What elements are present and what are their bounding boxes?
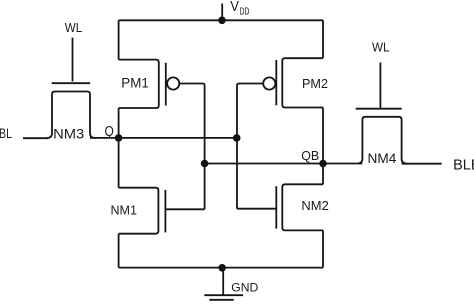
wire PM2 source to VDD rail [322,20,324,58]
wire BL to NM3 [23,137,48,139]
svg-text:PM2: PM2 [302,76,328,91]
node QB junction dot [319,160,327,168]
wire NM4 to BLB [402,163,442,165]
wire NM2 drain to node QB [322,164,324,185]
svg-text:NM3: NM3 [53,126,84,141]
transistor PM1 [119,60,180,108]
svg-text:WL: WL [372,40,390,55]
wire top VDD rail [119,19,323,21]
svg-text:WL: WL [65,20,83,35]
svg-text:V: V [230,0,239,15]
transistor NM1 [119,188,166,234]
node Q junction dot [115,134,123,142]
svg-text:QB: QB [301,149,319,163]
svg-text:PM1: PM1 [121,76,149,91]
svg-text:BLB: BLB [453,157,474,173]
wire bottom ground rail [119,267,323,269]
wire PM1 drain to node Q [118,108,120,138]
wire VDD stub above rail [221,4,223,21]
transistor NM3 (access) [47,83,95,138]
wire PM2 drain to node QB [322,108,324,164]
wire WL to NM4 gate [379,63,381,108]
transistor PM2 [263,58,323,107]
node junction dot gates of PM2/NM2 on Q row [233,134,241,142]
wire NM1 gate to QB vertical [165,208,204,210]
transistor NM4 (access) [356,109,407,164]
wire node QB row [205,163,363,165]
svg-text:NM4: NM4 [368,151,397,166]
svg-text:NM2: NM2 [301,198,328,213]
wire NM2 source to ground rail [322,230,324,267]
wire PM1 source to VDD rail [118,20,120,59]
svg-text:BL: BL [0,126,12,141]
ground symbol [204,268,243,300]
svg-text:Q: Q [105,124,114,140]
svg-text:GND: GND [231,281,258,295]
wire NM1 drain to node Q [118,138,120,188]
svg-text:DD: DD [240,7,250,18]
wire WL to NM3 gate [72,38,74,82]
wire NM2 gate to Q vertical [237,208,276,210]
node VDD junction dot [218,17,226,25]
wire PM2 gate to Q row (cross-coupling) [237,84,263,209]
node junction dot gates of PM1/NM1 on QB row [201,160,209,168]
svg-text:NM1: NM1 [111,203,138,218]
transistor NM2 [276,184,323,230]
node GND junction dot [218,264,226,272]
wire NM1 source to ground rail [118,234,120,268]
wire PM1 gate to QB row (cross-coupling) [180,84,205,210]
wire node Q row [90,137,237,139]
label VDD [230,0,249,18]
